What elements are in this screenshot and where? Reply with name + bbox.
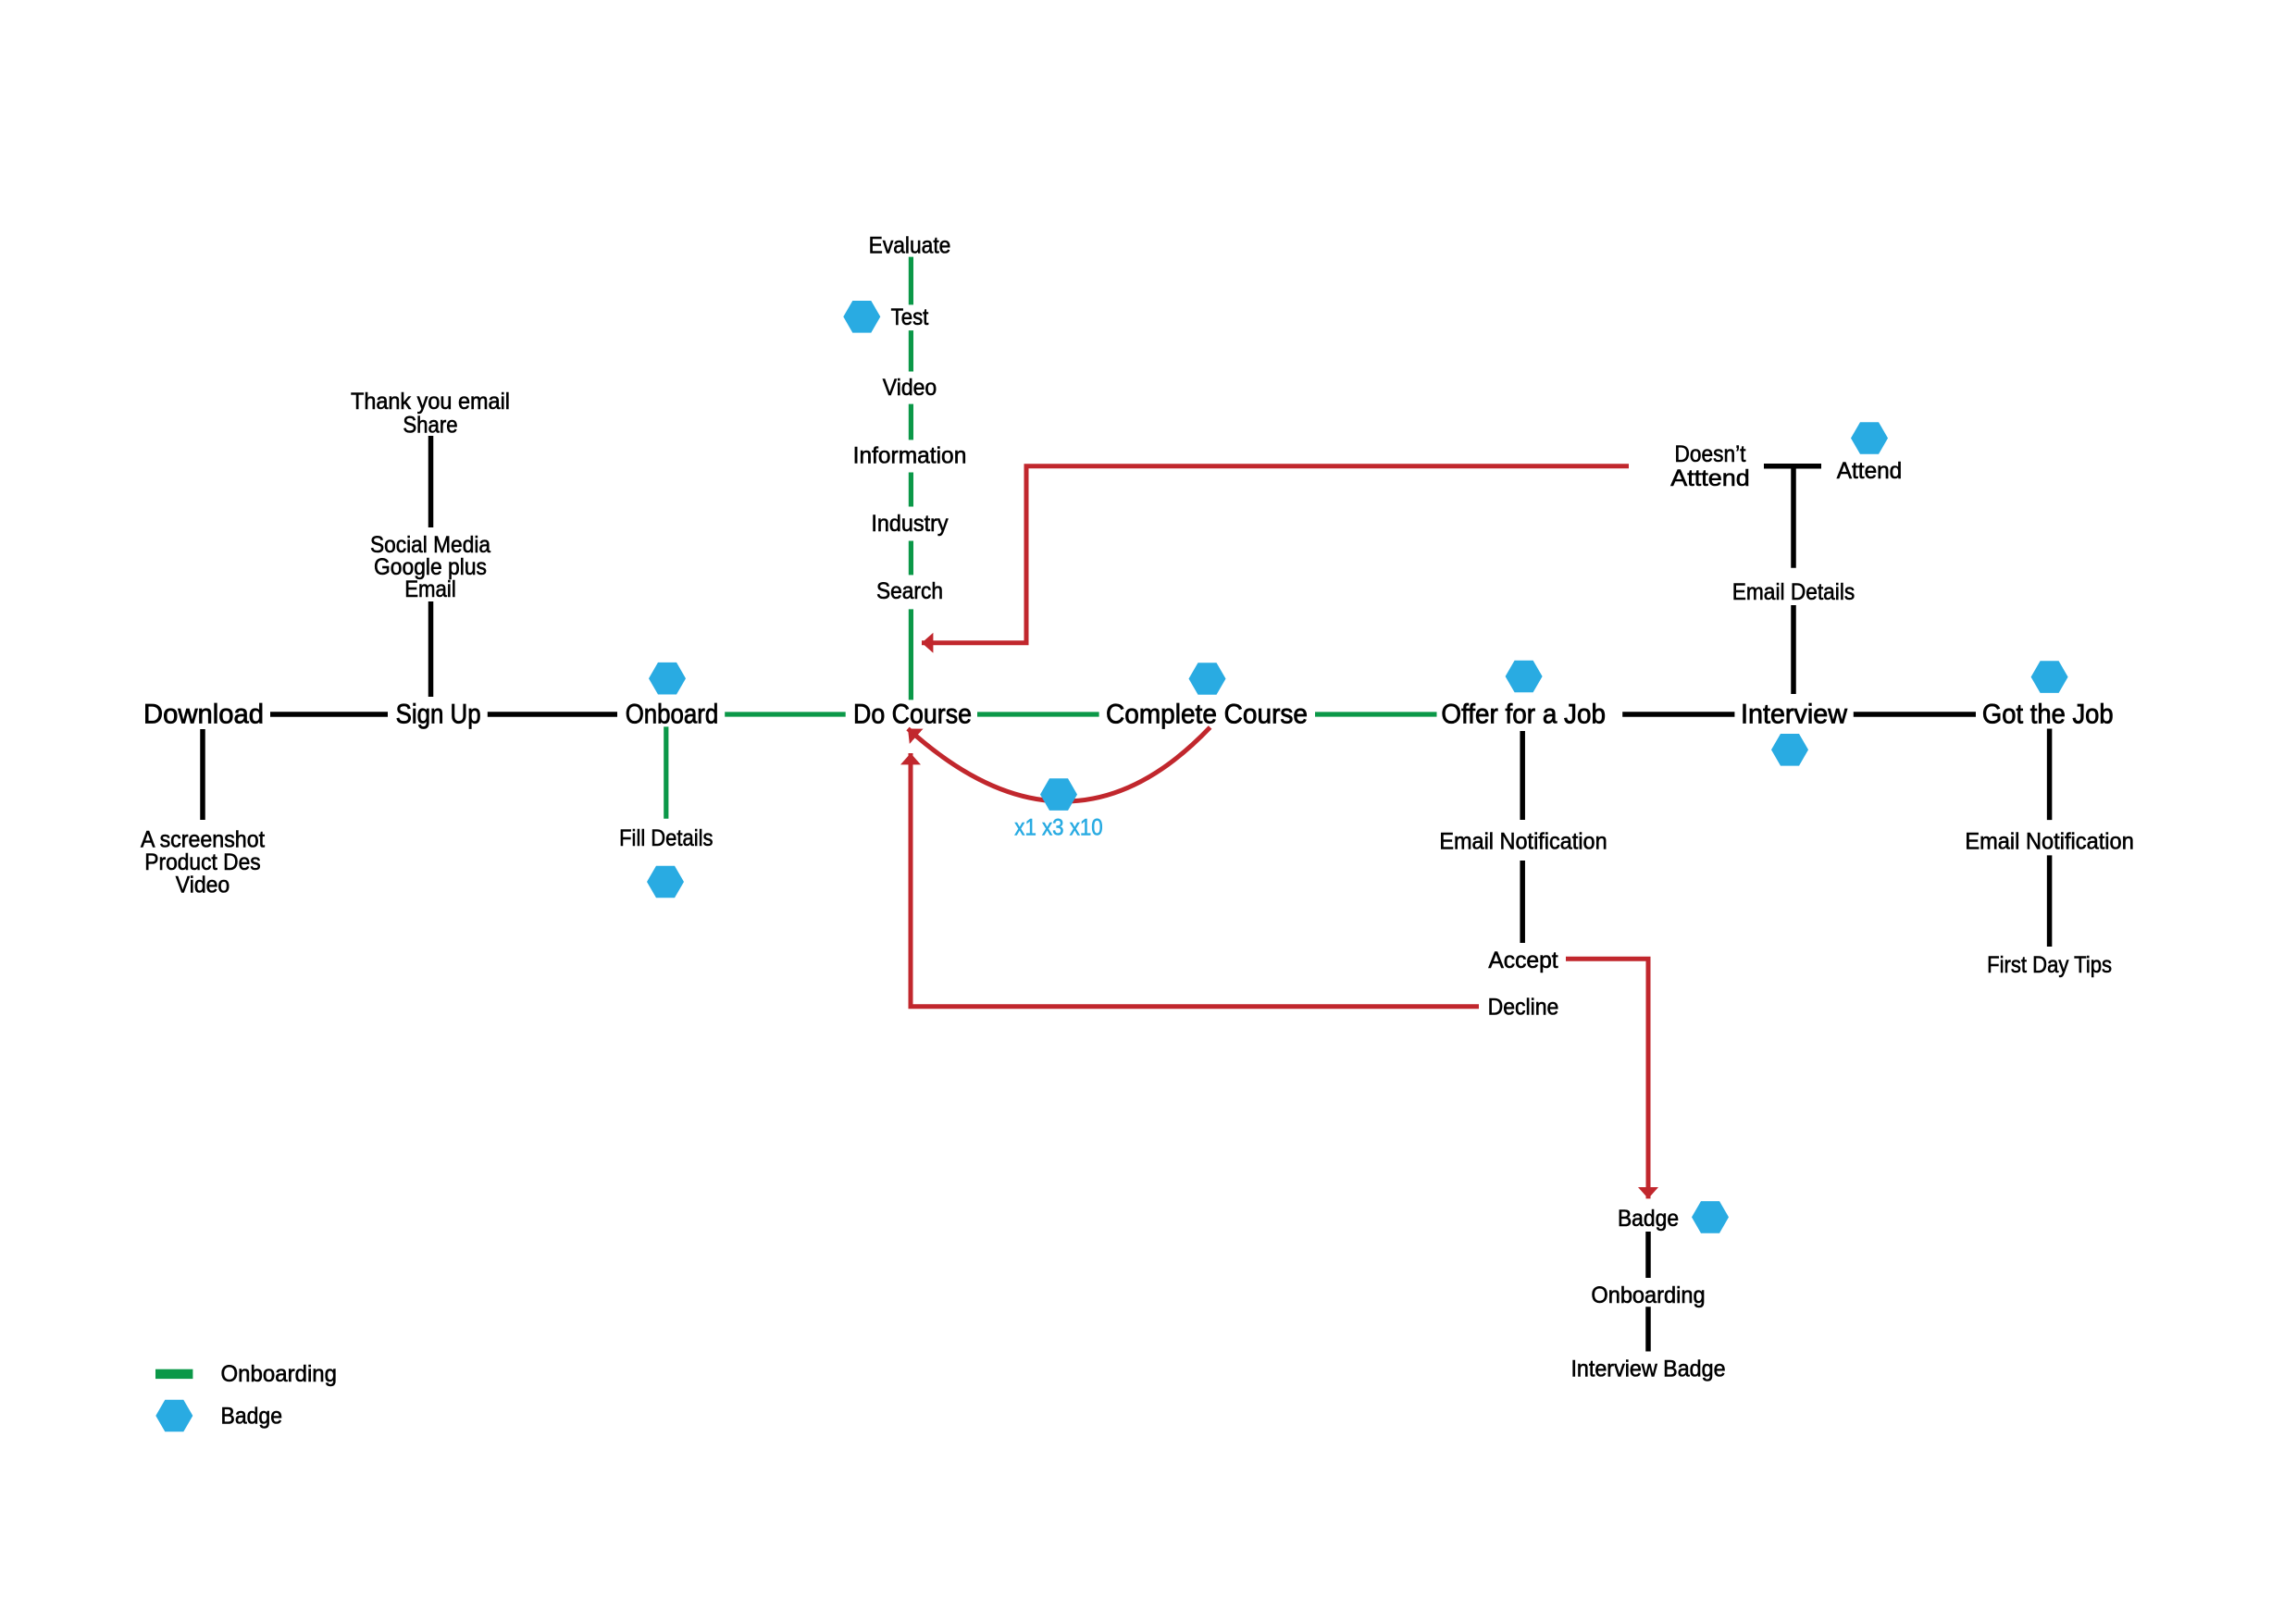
svg-text:Onboarding: Onboarding xyxy=(221,1361,338,1387)
svg-text:Offer for a Job: Offer for a Job xyxy=(1441,700,1606,730)
svg-text:x1 x3 x10: x1 x3 x10 xyxy=(1014,815,1102,841)
svg-text:Information: Information xyxy=(853,442,967,468)
svg-text:Accept: Accept xyxy=(1488,948,1558,973)
svg-text:Email Notification: Email Notification xyxy=(1965,828,2134,854)
svg-text:Sign Up: Sign Up xyxy=(396,700,481,730)
svg-text:Badge: Badge xyxy=(221,1404,283,1430)
svg-text:Onboarding: Onboarding xyxy=(1591,1282,1705,1308)
svg-text:Onboard: Onboard xyxy=(626,700,719,730)
svg-text:Interview Badge: Interview Badge xyxy=(1570,1356,1725,1381)
svg-text:Video: Video xyxy=(883,375,937,401)
svg-text:Download: Download xyxy=(143,700,264,730)
svg-text:Decline: Decline xyxy=(1488,995,1559,1021)
svg-text:Got the Job: Got the Job xyxy=(1982,700,2114,730)
svg-text:Atttend: Atttend xyxy=(1670,465,1750,491)
svg-text:Fill Details: Fill Details xyxy=(619,825,713,851)
svg-text:First Day Tips: First Day Tips xyxy=(1987,952,2112,978)
svg-text:Email Details: Email Details xyxy=(1732,579,1855,605)
svg-text:Complete Course: Complete Course xyxy=(1106,700,1308,730)
svg-text:Video: Video xyxy=(176,872,230,898)
svg-text:Email: Email xyxy=(404,576,456,602)
svg-text:Doesn’t: Doesn’t xyxy=(1675,441,1746,467)
svg-text:Thank you email: Thank you email xyxy=(351,389,510,415)
svg-text:Interview: Interview xyxy=(1741,700,1847,730)
svg-text:Badge: Badge xyxy=(1618,1206,1679,1232)
svg-text:Email Notification: Email Notification xyxy=(1439,828,1607,854)
svg-text:Industry: Industry xyxy=(871,511,949,537)
svg-text:Attend: Attend xyxy=(1837,458,1903,484)
svg-text:Do Course: Do Course xyxy=(853,700,972,730)
svg-text:Search: Search xyxy=(876,578,943,604)
svg-text:Test: Test xyxy=(891,304,929,330)
svg-text:Share: Share xyxy=(403,413,457,439)
svg-text:Evaluate: Evaluate xyxy=(869,233,951,259)
